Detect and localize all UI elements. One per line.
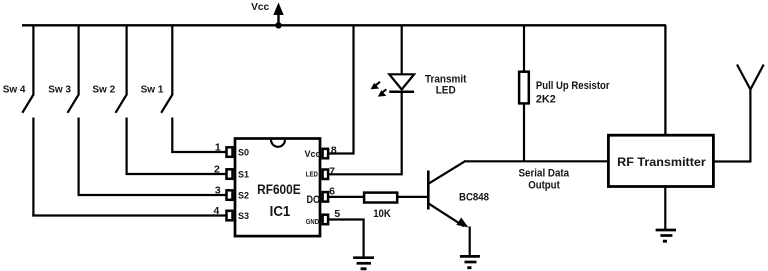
wire emitter to ground bbox=[469, 227, 471, 257]
svg-text:Serial Data: Serial Data bbox=[519, 168, 570, 180]
Vcc arrow bbox=[273, 3, 283, 27]
IC IC1 RF600E body bbox=[235, 139, 320, 237]
LED D1 triangle bbox=[389, 74, 414, 89]
pin 1 box bbox=[227, 147, 233, 157]
svg-text:RF600E: RF600E bbox=[257, 182, 301, 197]
svg-text:2K2: 2K2 bbox=[536, 94, 556, 106]
transistor Q1 BC848 bbox=[428, 161, 468, 228]
svg-text:2: 2 bbox=[214, 163, 220, 175]
junction dot at Vcc bbox=[275, 22, 281, 28]
svg-text:S3: S3 bbox=[238, 211, 249, 221]
svg-text:Sw 3: Sw 3 bbox=[48, 85, 71, 96]
resistor R2 pull-up 2K2 bbox=[519, 25, 529, 161]
pin 4 box bbox=[227, 211, 233, 221]
LED emission arrow 2 bbox=[378, 89, 387, 96]
RF Transmitter block bbox=[608, 135, 713, 186]
svg-text:S0: S0 bbox=[238, 148, 249, 158]
svg-text:Sw 4: Sw 4 bbox=[3, 85, 26, 96]
pin 8 box bbox=[323, 149, 329, 159]
wire RF transmitter to ground bbox=[664, 187, 666, 230]
wire pin7 to LED bbox=[329, 91, 402, 174]
svg-text:RF Transmitter: RF Transmitter bbox=[617, 155, 706, 169]
wire Vcc top rail bbox=[22, 24, 666, 26]
LED emission arrow 1 bbox=[371, 82, 381, 90]
LED D1 cathode bar bbox=[389, 91, 414, 94]
wire collector / serial data line bbox=[464, 160, 608, 162]
svg-text:S1: S1 bbox=[238, 170, 249, 180]
svg-text:1: 1 bbox=[215, 141, 221, 153]
svg-text:DO: DO bbox=[307, 194, 321, 206]
switch Sw1 bbox=[161, 25, 173, 153]
svg-text:Pull Up Resistor: Pull Up Resistor bbox=[536, 80, 610, 92]
wire Sw3 to pin3 S2 bbox=[78, 194, 227, 196]
svg-text:LED: LED bbox=[306, 172, 318, 179]
switch Sw4 bbox=[22, 25, 34, 217]
wire Sw1 to pin1 S0 bbox=[171, 151, 226, 153]
svg-text:IC1: IC1 bbox=[270, 204, 291, 220]
resistor R1 10K bbox=[364, 193, 397, 203]
svg-text:S2: S2 bbox=[238, 191, 249, 201]
ground emitter bbox=[460, 256, 480, 267]
LED D1 anode wire bbox=[401, 25, 403, 75]
svg-text:Output: Output bbox=[528, 179, 560, 191]
svg-text:10K: 10K bbox=[373, 208, 391, 220]
svg-text:8: 8 bbox=[331, 145, 337, 157]
antenna bbox=[737, 65, 764, 163]
svg-text:Sw 2: Sw 2 bbox=[92, 85, 115, 96]
svg-text:GND: GND bbox=[306, 219, 319, 226]
svg-text:Sw 1: Sw 1 bbox=[141, 85, 164, 96]
wire rail drop to RF transmitter bbox=[664, 25, 666, 136]
pin 7 box bbox=[323, 170, 329, 180]
wire pin6 to resistor bbox=[329, 196, 364, 198]
svg-text:4: 4 bbox=[214, 205, 220, 217]
svg-text:BC848: BC848 bbox=[459, 191, 489, 203]
ground RF transmitter bbox=[656, 230, 676, 241]
wire pin5 to ground bbox=[329, 220, 364, 258]
svg-text:Vcc: Vcc bbox=[251, 2, 269, 13]
svg-text:7: 7 bbox=[329, 166, 335, 178]
svg-text:LED: LED bbox=[436, 84, 456, 96]
wire pin8 Vcc riser bbox=[329, 25, 354, 154]
pin 3 box bbox=[227, 190, 233, 200]
wire Sw4 to pin4 S3 bbox=[32, 214, 226, 216]
pin 2 box bbox=[227, 169, 233, 179]
svg-text:3: 3 bbox=[215, 184, 221, 196]
pin 6 box bbox=[323, 192, 329, 202]
pin 5 box bbox=[323, 215, 329, 225]
IC notch bbox=[271, 140, 285, 147]
ground pin5 bbox=[353, 258, 374, 269]
svg-text:Vcc: Vcc bbox=[304, 149, 320, 159]
switch Sw2 bbox=[116, 25, 128, 175]
switch Sw3 bbox=[68, 25, 80, 196]
wire RF transmitter to antenna bbox=[714, 160, 751, 162]
wire Sw2 to pin2 S1 bbox=[126, 173, 227, 175]
wire resistor to base bbox=[397, 196, 428, 198]
